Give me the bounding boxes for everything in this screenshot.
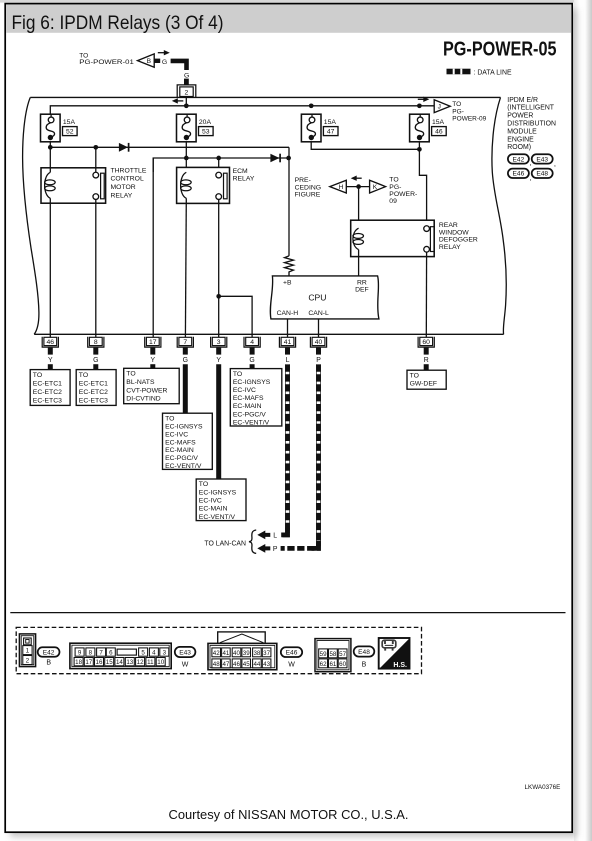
- svg-text:EC-MAIN: EC-MAIN: [199, 506, 228, 513]
- svg-text:EC-IVC: EC-IVC: [165, 431, 188, 438]
- oval E48 label: [354, 646, 375, 656]
- svg-text:15A: 15A: [432, 119, 445, 126]
- svg-text:62: 62: [320, 661, 327, 668]
- svg-text:EC-IVC: EC-IVC: [233, 387, 256, 394]
- svg-text:CEDING: CEDING: [295, 184, 321, 191]
- svg-text:Fig 6: IPDM Relays (3 Of 4): Fig 6: IPDM Relays (3 Of 4): [12, 12, 224, 34]
- pin 60: [418, 337, 434, 347]
- relay K2 box: [177, 167, 230, 203]
- wire fuse 46 down: [418, 142, 420, 150]
- svg-text:16: 16: [96, 659, 103, 666]
- svg-text:DEFOGGER: DEFOGGER: [439, 237, 478, 244]
- wire stub to box 95.8: [93, 364, 98, 370]
- svg-text:CPU: CPU: [308, 292, 326, 302]
- fuse 53 (20A): [177, 114, 197, 142]
- fuse 47 (15A): [301, 114, 321, 142]
- svg-text:E42: E42: [43, 649, 55, 656]
- svg-text:W: W: [288, 661, 295, 668]
- svg-text:2: 2: [26, 658, 30, 665]
- svg-text:EC-ETC3: EC-ETC3: [79, 397, 108, 404]
- junction row B at fuse 53: [184, 156, 189, 161]
- svg-text:CAN-L: CAN-L: [308, 310, 329, 317]
- svg-text:TO: TO: [79, 372, 88, 379]
- svg-text:EC-MAIN: EC-MAIN: [165, 447, 194, 454]
- data line legend swatch: [447, 69, 471, 75]
- box TO GW-DEF: [407, 370, 446, 389]
- svg-text:R: R: [424, 357, 429, 364]
- svg-text:EC-IGNSYS: EC-IGNSYS: [233, 379, 271, 386]
- diode D2 on row B: [270, 154, 279, 163]
- H.S. logo: [379, 638, 410, 669]
- svg-text:DI-CVTIND: DI-CVTIND: [126, 396, 160, 403]
- wire K2 contact to pin 3: [218, 199, 220, 337]
- pin 4: [244, 337, 260, 347]
- svg-text:53: 53: [202, 129, 210, 136]
- feed rail wire: [50, 106, 434, 114]
- thick wire pin 3 to box: [216, 364, 221, 479]
- svg-text:39: 39: [243, 650, 250, 657]
- thick wire into connector 2: [184, 79, 189, 85]
- data line P side rails: [315, 364, 317, 546]
- svg-text:EC-IGNSYS: EC-IGNSYS: [199, 489, 237, 496]
- row A horizontal wire: [50, 146, 289, 148]
- svg-text:P: P: [316, 357, 321, 364]
- svg-text:3: 3: [163, 649, 167, 656]
- junction row A at contact branch: [93, 145, 98, 150]
- IPDM body top outline: [30, 96, 500, 98]
- wire branch to pin 4: [219, 296, 252, 337]
- svg-text:1: 1: [26, 648, 30, 655]
- svg-text:15A: 15A: [63, 119, 76, 126]
- wire K3 coil to RR DEF: [358, 250, 360, 276]
- wire ECM contact top: [218, 158, 220, 172]
- svg-text:FIGURE: FIGURE: [295, 192, 321, 199]
- svg-text:CONTROL: CONTROL: [111, 176, 144, 183]
- fuse 52 (15A): [41, 114, 61, 142]
- wire fuse 53 down to ECM coil: [185, 142, 187, 173]
- relay K1 contact: [93, 172, 99, 178]
- row B horizontal wire: [153, 158, 288, 172]
- svg-text:TO: TO: [389, 177, 398, 184]
- svg-text:EC-VENT/V: EC-VENT/V: [165, 463, 202, 470]
- svg-text:4: 4: [152, 649, 156, 656]
- data line P corner solid: [312, 541, 319, 549]
- svg-text:Y: Y: [216, 357, 221, 364]
- junction pin3 pin4 branch: [216, 294, 221, 299]
- svg-text:7: 7: [183, 339, 187, 346]
- svg-text:EC-MAIN: EC-MAIN: [233, 403, 262, 410]
- connector triangle H: [330, 180, 347, 193]
- wire stub pin G 185.3: [183, 348, 188, 355]
- pin 46: [42, 337, 58, 347]
- svg-text:6: 6: [109, 649, 113, 656]
- svg-text:L: L: [273, 533, 277, 540]
- svg-text:RELAY: RELAY: [439, 244, 461, 251]
- svg-text:ENGINE: ENGINE: [507, 136, 534, 143]
- svg-text:40: 40: [315, 339, 323, 346]
- svg-text:P: P: [273, 546, 278, 553]
- oval E48 note: [532, 169, 553, 178]
- junction at rail fuse 53: [184, 103, 189, 108]
- svg-text:G: G: [162, 59, 167, 66]
- wire row A into K1 coil: [49, 147, 51, 172]
- svg-text:E48: E48: [358, 649, 370, 656]
- box TO EC-IGNSYS pin4: [230, 369, 281, 426]
- wire row C to defogger contact: [419, 149, 426, 226]
- svg-text:PG-: PG-: [452, 108, 464, 115]
- svg-text:8: 8: [94, 339, 98, 346]
- svg-text:MODULE: MODULE: [507, 128, 537, 135]
- svg-text:POWER-09: POWER-09: [452, 116, 486, 123]
- svg-text:12: 12: [137, 659, 144, 666]
- LAN-CAN brace: [249, 530, 256, 553]
- relay K3 box: [351, 220, 435, 256]
- title bar: [6, 5, 571, 33]
- relay K1 box: [41, 168, 106, 203]
- thick wire pin 7 to box: [183, 364, 188, 414]
- svg-text:43: 43: [263, 661, 270, 668]
- svg-text:MOTOR: MOTOR: [111, 184, 136, 191]
- svg-text:E42: E42: [513, 156, 525, 163]
- svg-text:41: 41: [222, 650, 229, 657]
- svg-text:38: 38: [253, 650, 260, 657]
- wire stub to box 50.3: [48, 364, 53, 370]
- svg-text:TO: TO: [165, 415, 174, 422]
- svg-text:LKWA0376E: LKWA0376E: [525, 784, 561, 791]
- oval E42 note: [508, 154, 529, 163]
- relay K3 coil: [353, 228, 359, 249]
- svg-text:47: 47: [327, 129, 335, 136]
- svg-text:CAN-H: CAN-H: [277, 310, 299, 317]
- svg-text:TO: TO: [33, 372, 42, 379]
- wire CAN-L to pin 40: [318, 319, 320, 337]
- svg-text:TO: TO: [199, 481, 208, 488]
- svg-text:EC-IVC: EC-IVC: [199, 498, 222, 505]
- wire stub pin Y 152.8: [150, 348, 155, 355]
- svg-text:45: 45: [243, 661, 250, 668]
- svg-text:E48: E48: [536, 171, 548, 178]
- IPDM body right boundary curve: [492, 97, 506, 334]
- box TO EC-ETC group 2: [76, 370, 116, 406]
- svg-text:DEF: DEF: [355, 287, 369, 294]
- data line L corner solid: [281, 528, 287, 535]
- wire CAN-H to pin 41: [287, 319, 289, 337]
- wire HK junction down to defogger coil: [358, 187, 360, 229]
- connector triangle B: [138, 54, 155, 67]
- wire stub pin R 426.2: [424, 348, 429, 355]
- wire row B to pin 17: [152, 158, 154, 337]
- svg-text:G: G: [249, 357, 254, 364]
- svg-text:41: 41: [284, 339, 292, 346]
- oval E42 label: [38, 647, 60, 657]
- connector panel dashed border: [16, 627, 421, 673]
- svg-text:E43: E43: [179, 649, 191, 656]
- wire stub pin L 287.5: [285, 348, 290, 355]
- svg-text:B: B: [46, 660, 51, 667]
- wire stub pin G 95.8: [93, 348, 98, 355]
- wire fuse 52 to row A: [49, 142, 51, 148]
- fuse 46 (15A): [410, 114, 430, 142]
- svg-text:20A: 20A: [199, 119, 212, 126]
- connector E48 drawing: [315, 639, 351, 672]
- svg-text:9: 9: [78, 649, 82, 656]
- svg-text:EC-ETC2: EC-ETC2: [79, 389, 108, 396]
- svg-text:IPDM E/R: IPDM E/R: [507, 97, 538, 104]
- svg-text:46: 46: [435, 129, 443, 136]
- wire from connector 2 to rail: [185, 96, 187, 105]
- svg-text:Courtesy of NISSAN MOTOR CO.,: Courtesy of NISSAN MOTOR CO., U.S.A.: [169, 808, 409, 822]
- thick wire pin 4 to box: [250, 364, 255, 369]
- svg-text:: DATA LINE: : DATA LINE: [474, 70, 512, 77]
- svg-text:46: 46: [47, 339, 55, 346]
- relay K2 coil: [181, 172, 187, 198]
- svg-text:EC-IGNSYS: EC-IGNSYS: [165, 423, 203, 430]
- svg-text:G: G: [93, 357, 98, 364]
- svg-text:THROTTLE: THROTTLE: [111, 167, 147, 174]
- svg-text:EC-ETC1: EC-ETC1: [79, 380, 108, 387]
- svg-text:EC-PGC/V: EC-PGC/V: [233, 411, 266, 418]
- svg-text:58: 58: [329, 651, 336, 658]
- svg-text:37: 37: [263, 650, 270, 657]
- svg-text:POWER-: POWER-: [389, 191, 417, 198]
- IPDM body left boundary curve: [23, 97, 39, 334]
- svg-text:09: 09: [389, 198, 397, 205]
- svg-text:K: K: [373, 184, 378, 191]
- arrow left on rail near connector 2: [172, 98, 178, 103]
- diode D1 on row A: [119, 143, 128, 152]
- svg-text:5: 5: [141, 649, 145, 656]
- connector E43 drawing: [70, 643, 171, 668]
- svg-text:H: H: [339, 184, 344, 191]
- relay K3 contact: [424, 226, 430, 232]
- arrow right on rail near PG-POWER-09: [423, 97, 429, 102]
- svg-text:PG-POWER-01: PG-POWER-01: [79, 59, 134, 66]
- svg-text:14: 14: [116, 659, 123, 666]
- data line L from pin 41: [281, 364, 288, 535]
- svg-text:60: 60: [339, 661, 346, 668]
- box TO EC-ETC group 1: [30, 370, 70, 406]
- svg-text:11: 11: [147, 659, 154, 666]
- junction at rail fuse 46: [417, 103, 422, 108]
- connector triangle J: [434, 100, 450, 113]
- data line P from pin 40: [281, 364, 319, 548]
- wire K1 contact to pin 8: [95, 199, 97, 337]
- box TO EC-IGNSYS pin3: [196, 479, 246, 521]
- wire H-K junction: [346, 186, 369, 188]
- pin 3: [211, 337, 227, 347]
- svg-text:10: 10: [157, 659, 164, 666]
- relay K1 coil: [45, 172, 51, 198]
- svg-text:15A: 15A: [324, 119, 337, 126]
- svg-text:TO: TO: [410, 372, 419, 379]
- junction row A at fuse 52: [48, 145, 53, 150]
- thick wire elbow to connector 2: [171, 61, 187, 70]
- svg-text:EC-VENT/V: EC-VENT/V: [199, 514, 236, 521]
- svg-text:,: ,: [554, 159, 556, 168]
- pin 7: [177, 337, 193, 347]
- arrow left above HK junction: [351, 176, 357, 181]
- arrow to LAN-CAN L: [257, 531, 270, 540]
- junction HK: [356, 184, 361, 189]
- svg-text:3: 3: [217, 339, 221, 346]
- page right edge strip: [574, 0, 592, 841]
- svg-text:GW-DEF: GW-DEF: [410, 380, 437, 387]
- junction at rail fuse 47: [309, 103, 314, 108]
- svg-text:40: 40: [233, 650, 240, 657]
- wire K1 coil to pin 46: [49, 198, 51, 337]
- svg-text:ECM: ECM: [233, 168, 248, 175]
- svg-text:TO: TO: [452, 101, 461, 108]
- svg-text:B: B: [362, 661, 367, 668]
- svg-text:PRE-: PRE-: [295, 177, 311, 184]
- svg-text:EC-ETC2: EC-ETC2: [33, 389, 62, 396]
- svg-text:7: 7: [99, 649, 103, 656]
- svg-text:61: 61: [329, 661, 336, 668]
- svg-text:EC-VENT/V: EC-VENT/V: [233, 419, 270, 426]
- svg-text:J: J: [438, 104, 441, 111]
- divider line: [10, 612, 565, 614]
- svg-text:DISTRIBUTION: DISTRIBUTION: [507, 121, 556, 128]
- svg-text:G: G: [183, 357, 188, 364]
- connector 2 bracket: [177, 85, 196, 98]
- svg-text:L: L: [286, 357, 290, 364]
- svg-text:RELAY: RELAY: [111, 193, 133, 200]
- box TO EC-IGNSYS pin7: [163, 413, 213, 469]
- svg-text:G: G: [184, 73, 189, 80]
- svg-text:RR: RR: [357, 280, 367, 287]
- svg-text:CVT-POWER: CVT-POWER: [126, 387, 167, 394]
- pin 40: [310, 337, 326, 347]
- svg-text:18: 18: [75, 659, 82, 666]
- svg-text:48: 48: [213, 661, 220, 668]
- svg-text:47: 47: [222, 661, 229, 668]
- row A corner down to +B: [288, 147, 290, 256]
- arrow right above triangle B: [164, 50, 170, 55]
- svg-text:E46: E46: [286, 650, 298, 657]
- svg-text:17: 17: [85, 659, 92, 666]
- svg-text:EC-ETC3: EC-ETC3: [33, 397, 62, 404]
- svg-text:+B: +B: [283, 279, 292, 286]
- svg-text:60: 60: [422, 339, 430, 346]
- wire stub pin Y 218.7: [216, 348, 221, 355]
- svg-text:8: 8: [89, 649, 93, 656]
- IPDM body bottom outline: [34, 333, 503, 335]
- wire K3 contact to pin 60: [425, 252, 427, 337]
- oval E46 label: [281, 647, 302, 657]
- svg-text:44: 44: [253, 661, 260, 668]
- svg-text:PG-: PG-: [389, 184, 401, 191]
- svg-text:TO LAN-CAN: TO LAN-CAN: [204, 541, 246, 548]
- junction row B joins +B wire: [286, 156, 291, 161]
- junction row B at ECM contact: [216, 156, 221, 161]
- svg-text:EC-MAFS: EC-MAFS: [165, 439, 196, 446]
- oval E43 note: [532, 154, 553, 163]
- connector triangle K: [370, 180, 386, 193]
- wire K2 coil to pin 7: [184, 198, 187, 337]
- svg-text:4: 4: [250, 339, 254, 346]
- svg-text:WINDOW: WINDOW: [439, 229, 469, 236]
- svg-text:W: W: [182, 661, 189, 668]
- svg-text:TO: TO: [126, 371, 135, 378]
- wire stub pin G 252.1: [250, 348, 255, 355]
- wire stub pin Y 50.3: [48, 348, 53, 355]
- svg-text:PG-POWER-05: PG-POWER-05: [443, 38, 557, 60]
- svg-text:17: 17: [149, 339, 157, 346]
- thick wire block: [154, 59, 160, 63]
- junction row C at fuse 46: [417, 147, 422, 152]
- svg-text:Y: Y: [48, 357, 53, 364]
- wire stub to box 152.8: [150, 364, 155, 370]
- oval E43 label: [175, 647, 196, 657]
- svg-text:EC-PGC/V: EC-PGC/V: [165, 455, 198, 462]
- pin 17: [145, 337, 161, 347]
- wire contact branch into K1: [95, 147, 97, 172]
- svg-text:ROOM): ROOM): [507, 144, 531, 151]
- svg-text:POWER: POWER: [507, 113, 533, 120]
- svg-text:15: 15: [106, 659, 113, 666]
- wire fuse 47 to row C: [311, 142, 419, 150]
- svg-text:59: 59: [320, 651, 327, 658]
- svg-text:EC-ETC1: EC-ETC1: [33, 380, 62, 387]
- wire stub pin P 318.5: [316, 348, 321, 355]
- svg-text:BL-NATS: BL-NATS: [126, 379, 155, 386]
- pin 41: [279, 337, 295, 347]
- svg-text:52: 52: [66, 129, 74, 136]
- svg-text:(INTELLIGENT: (INTELLIGENT: [507, 105, 555, 112]
- oval E46 note: [508, 169, 529, 178]
- svg-text:REAR: REAR: [439, 222, 458, 229]
- svg-text:2: 2: [185, 90, 189, 97]
- svg-text:H.S.: H.S.: [393, 662, 407, 669]
- svg-text:E46: E46: [513, 171, 525, 178]
- pin 8: [88, 337, 104, 347]
- svg-text:13: 13: [126, 659, 133, 666]
- svg-text:TO: TO: [233, 371, 242, 378]
- box TO BL-NATS: [124, 368, 180, 403]
- data line L side rails: [284, 364, 286, 533]
- svg-text:57: 57: [339, 651, 346, 658]
- CPU box: [270, 276, 379, 319]
- svg-text:42: 42: [213, 650, 220, 657]
- wire stub to GW-DEF box: [424, 364, 429, 371]
- svg-text:46: 46: [233, 661, 240, 668]
- arrow to LAN-CAN P: [257, 544, 270, 553]
- svg-text:EC-MAFS: EC-MAFS: [233, 395, 264, 402]
- svg-text:Y: Y: [150, 357, 155, 364]
- resistor above +B: [285, 256, 294, 276]
- page top edge strip: [0, 0, 592, 3]
- svg-text:RELAY: RELAY: [233, 176, 255, 183]
- connector E46 drawing: [218, 632, 266, 644]
- relay K2 contact: [216, 172, 222, 178]
- svg-text:E43: E43: [536, 156, 548, 163]
- connector E42 drawing: [19, 634, 35, 667]
- svg-text:B: B: [147, 58, 152, 65]
